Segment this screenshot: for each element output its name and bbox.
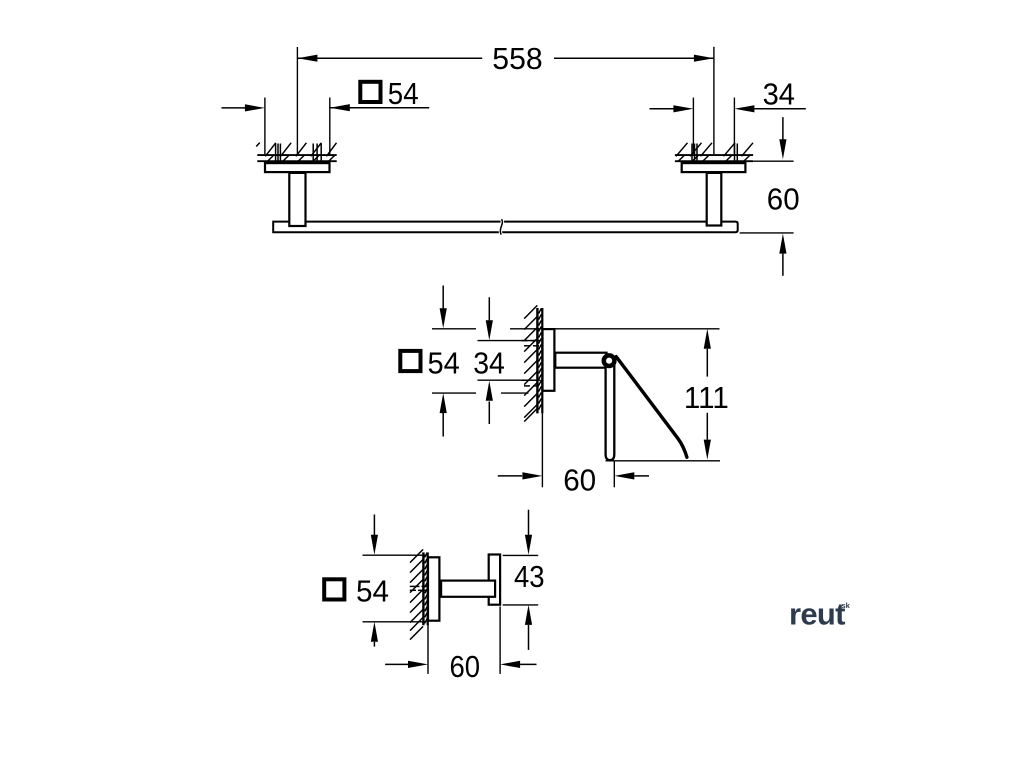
ext line 34 bottom (paper holder) bbox=[478, 379, 541, 381]
wall line (hook) bbox=[422, 552, 424, 625]
dim 60 arrow right (hook) bbox=[500, 661, 520, 668]
ext line rod (paper holder 60) bbox=[613, 462, 615, 488]
svg-text:reut: reut bbox=[789, 596, 845, 631]
ext line rail bottom right bbox=[740, 232, 794, 234]
ext line hook bottom bbox=[503, 604, 539, 606]
dim 54 arrow (top) bbox=[330, 104, 350, 111]
dim 43 down arrow bbox=[525, 535, 532, 555]
dim 60 upper line (top fig) bbox=[782, 117, 784, 141]
dim 60 lower line (top fig) bbox=[782, 254, 784, 276]
ext line hook (hook 60) bbox=[499, 607, 501, 674]
dim 60 line left (hook) bbox=[385, 663, 408, 665]
dim 60 line right (hook) bbox=[520, 663, 536, 665]
dim 54 line (top) bbox=[330, 107, 429, 109]
dim 111 down arrow bbox=[704, 440, 711, 460]
svg-text:111: 111 bbox=[684, 380, 729, 415]
dim 54 down arrow (hook) bbox=[371, 535, 378, 555]
dim 43 upper line bbox=[528, 510, 530, 535]
wall hatch (hook) bbox=[410, 549, 428, 639]
dim 54 down arrow (paper holder) bbox=[440, 308, 447, 328]
outer arrow left bbox=[245, 104, 265, 111]
break mark in rail bbox=[500, 219, 502, 234]
svg-text:60: 60 bbox=[563, 463, 596, 498]
dim 60 arrow right (paper holder) bbox=[614, 472, 634, 479]
dim 60 arrow left (paper holder) bbox=[522, 472, 542, 479]
dim 111 lower line bbox=[706, 413, 708, 440]
dim 558 line right bbox=[554, 57, 714, 59]
hook stem bbox=[441, 581, 495, 597]
wall surface line (hook) bbox=[427, 552, 429, 625]
ext line hook top bbox=[503, 554, 539, 556]
right wall plate bbox=[682, 163, 746, 172]
ext line right outer bbox=[733, 98, 735, 155]
svg-text:54: 54 bbox=[388, 76, 419, 111]
holder wall plate (side view) bbox=[543, 329, 555, 391]
svg-text:60: 60 bbox=[767, 181, 800, 216]
dim 111 up arrow bbox=[704, 329, 711, 349]
svg-text:43: 43 bbox=[514, 559, 545, 594]
wall hatch right (towel bar) bbox=[675, 143, 753, 161]
ext line 34 top (paper holder) bbox=[478, 340, 541, 342]
ext line wall (paper holder 60) bbox=[541, 413, 543, 487]
dim 34 lower line (paper holder) bbox=[488, 402, 490, 425]
wall hatch left (towel bar) bbox=[256, 143, 337, 162]
dim 34 line right bbox=[754, 108, 805, 110]
outer arrow line left bbox=[222, 107, 247, 109]
ext line left outer bbox=[264, 98, 266, 155]
wall surface line (paper holder) bbox=[541, 308, 543, 413]
ext line left center bbox=[296, 47, 298, 154]
svg-text:60: 60 bbox=[450, 649, 481, 684]
left wall plate bbox=[265, 163, 330, 172]
svg-text:54: 54 bbox=[356, 573, 389, 608]
ext line plate bottom (hook) bbox=[363, 621, 426, 623]
dim 34 upper line (paper holder) bbox=[488, 297, 490, 321]
dim 558 arrow left bbox=[297, 55, 317, 62]
dim 43 lower line bbox=[528, 625, 530, 650]
ext line plate top (hook) bbox=[363, 554, 426, 556]
pivot circle bbox=[604, 355, 615, 366]
dim 54 upper line (hook) bbox=[373, 515, 375, 536]
dim 34 line left bbox=[650, 108, 675, 110]
dim 54 lower line (hook) bbox=[373, 642, 375, 647]
dim 60 line left (paper holder) bbox=[498, 475, 522, 477]
wall hatch (paper holder) bbox=[522, 305, 542, 421]
dim 34 up arrow (paper holder) bbox=[486, 381, 493, 401]
wall line (paper holder) bbox=[536, 308, 538, 413]
ext line plate (hook 60) bbox=[427, 623, 429, 674]
holder rod bbox=[606, 361, 615, 460]
dim 54 up arrow (hook) bbox=[371, 622, 378, 642]
dim 60 up arrow (top fig) bbox=[779, 234, 786, 254]
dim 558 arrow right bbox=[694, 55, 714, 62]
square symbol 54 (top) bbox=[360, 82, 380, 102]
left post bbox=[289, 173, 305, 226]
dim 34 down arrow (paper holder) bbox=[486, 320, 493, 340]
dim 60 line right (paper holder) bbox=[634, 475, 649, 477]
hook body bbox=[489, 555, 500, 605]
dim 54 lower line (paper holder) bbox=[442, 413, 444, 437]
dim 60 arrow left (hook) bbox=[408, 661, 428, 668]
dim 34 arrow left bbox=[673, 105, 693, 112]
square symbol 54 (paper holder) bbox=[400, 351, 420, 371]
dim 54 upper line (paper holder) bbox=[442, 286, 444, 310]
hook wall plate bbox=[428, 557, 439, 620]
svg-text:54: 54 bbox=[428, 346, 460, 381]
holder flap bbox=[616, 357, 687, 458]
ext line right inner bbox=[692, 98, 694, 155]
right post bbox=[707, 173, 722, 226]
holder arm bbox=[555, 353, 606, 368]
ext line plate bottom (paper holder) bbox=[432, 392, 476, 394]
dim 43 up arrow bbox=[525, 605, 532, 625]
dim 60 down arrow (top fig) bbox=[779, 139, 786, 159]
dim 558 line left bbox=[297, 57, 482, 59]
ext line right center bbox=[713, 47, 715, 154]
ext line rod bottom (paper holder) bbox=[606, 460, 721, 462]
svg-text:558: 558 bbox=[492, 41, 542, 76]
svg-text:34: 34 bbox=[763, 77, 795, 112]
svg-text:sk: sk bbox=[842, 601, 851, 610]
towel bar rail bbox=[273, 222, 738, 233]
dim 111 upper line bbox=[706, 349, 708, 377]
square symbol 54 (hook) bbox=[324, 579, 344, 599]
dim 54 up arrow (paper holder) bbox=[440, 393, 447, 413]
dim 34 arrow right bbox=[734, 105, 754, 112]
ext line plate top (paper holder) bbox=[432, 328, 476, 330]
ext line left inner bbox=[329, 98, 331, 155]
svg-text:34: 34 bbox=[473, 346, 505, 381]
ext line wall surface right bbox=[753, 160, 794, 162]
